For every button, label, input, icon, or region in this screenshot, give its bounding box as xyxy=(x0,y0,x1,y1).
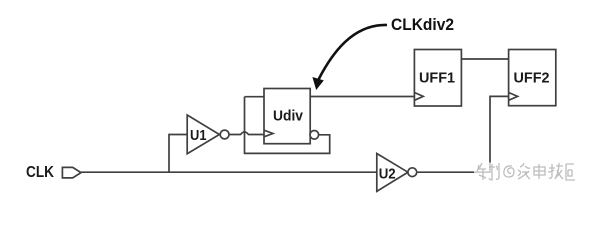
bubble Udiv inverted output xyxy=(310,131,319,140)
pin UFF2 clock triangle xyxy=(509,93,518,101)
bubble U1 output xyxy=(220,130,229,139)
node CLK input port xyxy=(62,167,81,178)
svg-text:CLK: CLK xyxy=(26,164,54,181)
wire branch up to U1 input xyxy=(169,135,187,173)
annotation arrow to CLKdiv2 net xyxy=(319,25,388,80)
svg-text:U2: U2 xyxy=(379,166,396,183)
wire CLK main horizontal xyxy=(81,171,377,173)
flip-flop Udiv box xyxy=(264,89,310,144)
flip-flop UFF1 box xyxy=(414,50,461,107)
svg-text:UFF1: UFF1 xyxy=(419,70,455,87)
wire feedback loop xyxy=(245,97,330,154)
inverter U2 xyxy=(377,154,408,192)
svg-text:Udiv: Udiv xyxy=(273,108,304,125)
svg-text:U1: U1 xyxy=(190,127,207,144)
pin UFF1 clock triangle xyxy=(414,93,423,101)
wire U1 output to Udiv clock (with hop over feedback) xyxy=(229,132,264,135)
annotation arrowhead xyxy=(312,77,323,90)
pin Udiv clock triangle xyxy=(264,130,273,137)
bubble U2 output xyxy=(408,168,417,177)
wire Udiv D input xyxy=(245,96,265,98)
wire UFF1 Q to UFF2 D xyxy=(461,58,508,60)
inverter U1 xyxy=(187,115,219,154)
watermark xyxy=(474,163,575,182)
svg-text:UFF2: UFF2 xyxy=(514,70,550,87)
wire Udiv Q output to UFF1 clock xyxy=(310,96,414,98)
wire U2 output to UFF2 clock xyxy=(417,96,509,172)
svg-text:CLKdiv2: CLKdiv2 xyxy=(391,15,454,34)
flip-flop UFF2 box xyxy=(509,50,556,106)
